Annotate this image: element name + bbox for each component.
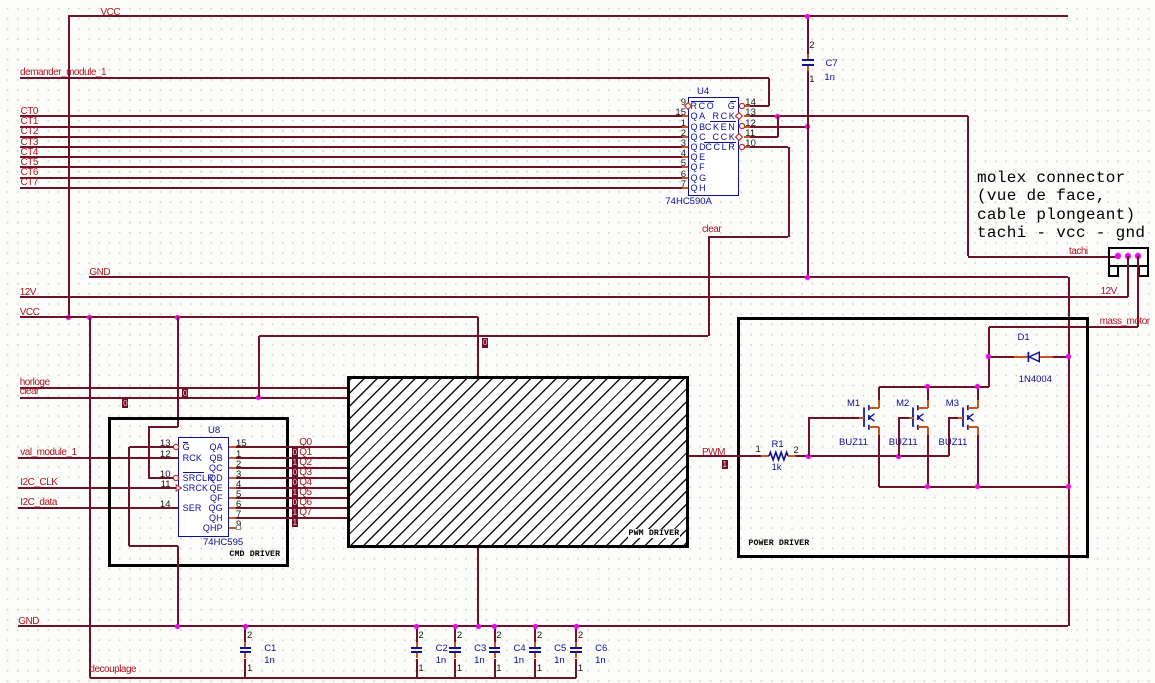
U8 pin number 9 [236,520,241,530]
U8 pin number 15 [236,439,247,449]
wire Q3 [229,477,236,479]
wire VCC loop to U8 SRCLR pin 10 [148,426,178,428]
node M2 drain [925,384,930,389]
label Q4 [299,478,311,489]
wire U4 pin10 CCLR stub [744,146,750,148]
molex connector left tab [1108,267,1118,277]
node D1 anode junction [986,354,991,359]
capacitor C2 [416,626,418,642]
wire U8 G pin 13 to GND [129,446,173,448]
label mass_motor [1100,317,1150,328]
wire Q2 [229,467,236,469]
U4 pin name RCK [713,112,737,121]
net tag on QHP row [292,518,298,528]
wire mass_motor [1137,256,1139,327]
label 12V right [1101,287,1117,298]
wire CT2 [20,136,682,138]
wire clear riser [258,336,260,397]
U8 pin number 2 [236,460,241,470]
net tag on Q0 row [292,448,298,458]
node M2 source [925,484,930,489]
capacitor C1 [244,626,246,642]
label C1 [264,644,276,654]
label clear [20,387,39,398]
label CT0 [21,107,38,118]
transistor M1 BUZ11 [862,402,884,450]
label horloge [20,378,50,389]
label I2C_CLK [20,478,57,489]
U4 pin 9 RCO clock mark [683,101,693,111]
wire CT1 [20,126,682,128]
label M3 [946,399,959,409]
label C6 value 1n [595,656,606,666]
wire Q4 [229,487,236,489]
U8 pin number 4 [236,480,241,490]
node C7 to VCC rail [805,14,810,19]
node VCC to U8 [175,315,180,320]
U4 pin number 1 [681,119,686,129]
label R1 [772,440,784,450]
wire CT7 [20,187,682,189]
net tag on Q6 row [292,508,298,518]
wire M2 gate [898,417,900,456]
pin number C2-1 [418,664,423,674]
label CT4 [21,148,38,159]
node M2 gate junction [896,454,901,459]
U8 pin name QE [210,484,223,493]
net tag on Q3 row [292,478,298,488]
capacitor C4 [494,626,496,642]
U8 pin name SRCK [183,484,209,493]
wire decouplage rail [90,677,577,679]
label C5 [554,644,566,654]
U4 pin number 4 [681,149,686,159]
U4 pin number 12 [745,119,756,129]
pin number C7-1 [809,75,814,85]
transistor M3 BUZ11 [961,402,983,450]
box POWER DRIVER [737,317,1089,558]
wire PWM gate bus [796,455,949,457]
U4 pin name QG [691,174,708,183]
wire VCC top rail [68,15,1068,17]
text molex connector note [977,169,1145,242]
label 12V left [20,288,36,299]
label clear at U4 [702,225,721,236]
wire horloge [20,387,347,389]
U4 CKEN overbar [710,121,736,122]
U8 pin number 11 [161,480,171,490]
pin number C4-2 [496,631,501,641]
wire CT4 [20,156,682,158]
net tag on clear line [122,399,128,409]
label PWM [702,448,725,459]
U4 pin number 11 [745,129,755,139]
wire I2C_CLK [18,487,176,489]
label CT7 [21,178,38,189]
pin number C4-1 [496,664,501,674]
U4 pin name QB [691,123,707,132]
U4 pin number 13 [745,108,756,118]
label M1 value BUZ11 [839,438,868,448]
net tag on horloge line [182,389,188,399]
molex pin 1 tachi [1115,253,1121,259]
wire CT3 [20,146,682,148]
label VCC top [101,8,121,19]
U8 pin name QA [210,443,223,452]
wire VCC middle rail [20,316,478,318]
U4 pin number 15 [675,108,686,118]
U8 pin 10 bubble [172,474,180,482]
label C6 [595,644,607,654]
pin number C2-2 [418,631,423,641]
net tag on Q2 row [292,468,298,478]
label decouplage [89,665,136,676]
wire I2C_data [18,507,178,509]
node C2 on GND rail [414,624,419,629]
label C2 [436,644,448,654]
diode D1 1N4004 [989,356,1014,358]
U8 pin number 5 [236,490,241,500]
U8 pin 11 clock mark [175,484,183,492]
label val_module_1 [20,448,76,459]
wire M1 gate [808,417,810,456]
U8 pin number 12 [160,450,171,460]
U4 pin 14 bubble [738,102,746,110]
node M3 source [975,484,980,489]
U4 pin name QH [691,184,708,193]
label D1 [1018,333,1030,343]
wire PWM from PWM DRIVER box [689,455,761,457]
U4 pin number 7 [681,180,686,190]
net tag on Q5 row [292,498,298,508]
U8 pin name QC [209,464,223,473]
capacitor C7 [807,16,809,54]
label CT1 [21,117,38,128]
wire tachi net from U4 RCK [744,115,750,117]
wire CT5 [20,166,682,168]
U8 pin name QG [209,504,223,513]
U8 pin name QH [209,514,223,523]
label C3 [474,644,486,654]
text PWM DRIVER [628,529,681,538]
label CT3 [21,138,38,149]
wire CT6 [20,177,682,179]
wire val_module_1 [18,457,178,459]
node CKEN-C7-GND junction [805,124,810,129]
net tag on Q4 row [292,488,298,498]
pin number C5-1 [537,664,542,674]
label U4 [697,87,709,97]
pin number C6-1 [578,664,583,674]
U8 pin 13 bubble [172,443,180,451]
node D1 cathode junction [1066,354,1071,359]
U8 SRCLR overbar [183,472,205,473]
U4 pin name QD [691,143,708,152]
wire Q6 [229,507,236,509]
resistor R1 [761,455,769,457]
node U8 G net on GND rail [175,624,180,629]
U8 pin name QHP [203,524,223,533]
node R1 to M1 gate [806,454,811,459]
label tachi [1069,247,1088,258]
node PWM box drop on GND rail [476,624,481,629]
label M1 [847,399,860,409]
U4 pin number 9 [681,98,686,108]
wire GND middle rail [89,276,1068,278]
label Q2 [299,458,311,469]
IC U4 74HC590A body [688,97,739,197]
wire U4 pin14 G stub [744,105,750,107]
net tag on Q1 row [292,458,298,468]
text POWER DRIVER [748,539,809,548]
U4 CCLR overbar [704,142,736,143]
U4 RCO overbar [691,101,714,102]
wire VCC drop below PWM box to GND [477,548,479,626]
label U8 [208,426,220,436]
molex connector body [1108,247,1148,267]
U4 pin name QE [691,153,707,162]
label R1 value 1k [772,463,782,473]
label D1 value 1N4004 [1019,375,1052,385]
wire Q1 [229,457,236,459]
net tag on PWM line [722,460,728,470]
label 74HC595 [203,538,243,548]
U8 pin number 10 [160,470,171,480]
label GND middle [89,268,110,279]
wire GND right riser [1068,277,1070,626]
U8 pin name RCK [183,454,202,463]
label VCC middle [20,308,40,319]
node C3 on GND rail [453,624,458,629]
wire Q0 [229,446,236,448]
wire RCK to CCK link [777,116,779,136]
U4 pin name QC [691,133,708,142]
U4 pin name QA [691,112,707,121]
pin number C6-2 [578,631,583,641]
node C7 net to GND rail [805,275,810,280]
wire drain rail [879,386,989,388]
label CT2 [21,127,38,138]
pin number C7-2 [809,41,814,51]
net tag on VCC drop [482,338,488,348]
node M3 drain [975,384,980,389]
U8 pin number 1 [236,450,241,460]
pin number C1-2 [247,631,252,641]
U4 pin number 3 [681,139,686,149]
box CMD DRIVER [108,417,289,567]
label Q1 [299,448,311,459]
molex pin 3 mass_motor [1135,253,1141,259]
IC U8 74HC595 body [178,437,229,537]
node C1 on GND rail [243,624,248,629]
U8 pin number 13 [160,439,171,449]
label C1 value 1n [264,656,275,666]
label C3 value 1n [474,656,485,666]
U4 pin 12 bubble [738,122,746,130]
molex connector right tab [1138,267,1148,277]
label C5 value 1n [554,656,565,666]
wire U4 pin12 CKEN stub [744,126,750,128]
label Q0 [299,438,311,449]
label C4 value 1n [514,656,525,666]
label Q7 [299,508,311,519]
node VCC to decoupling rail [87,315,92,320]
U8 pin name G [183,443,190,452]
U4 pin name CCLR [705,143,736,152]
U4 pin 13 clock mark [734,111,744,121]
U8 pin number 14 [160,500,171,510]
U8 G overbar [183,442,188,443]
node C4 on GND rail [492,624,497,629]
U4 pin number 10 [745,139,756,149]
node C5 on GND rail [533,624,538,629]
label GND bottom [18,617,39,628]
label C2 value 1n [436,656,447,666]
U8 pin name QD [209,474,223,483]
wire GND bottom rail [18,625,1068,627]
U4 pin name G [728,102,737,111]
U8 pin name QF [210,494,223,503]
capacitor C5 [534,626,536,642]
wire Q7 [229,517,236,519]
pin number C1-1 [247,664,252,674]
U8 QHP unconnected marker [236,525,241,530]
U4 pin name CKEN [705,123,736,132]
text CMD DRIVER [229,550,280,559]
wire VCC drop into CMD DRIVER box [177,317,179,427]
label C4 [514,644,526,654]
transistor M2 BUZ11 [911,402,933,450]
label M2 [896,399,909,409]
molex pin 2 12V [1125,253,1131,259]
U4 pin number 5 [681,159,686,169]
label M2 value BUZ11 [889,438,918,448]
wire U8 QHP stub [229,527,236,529]
wire M3 gate [948,417,950,456]
U8 pin name QB [210,454,223,463]
label demander_module_1 [20,68,106,79]
node C6 on GND rail [574,624,579,629]
U4 pin name RCO [691,102,716,111]
wire U4 pin11 CCK stub [744,136,750,138]
node source rail to GND riser [1066,484,1071,489]
label CT5 [21,158,38,169]
U8 pin number 6 [236,500,241,510]
wire 12V from connector [1127,256,1129,297]
U4 pin 10 bubble [738,143,746,151]
wire clear horizontal run to U4 [259,335,709,337]
pin number C5-2 [537,631,542,641]
pin number C3-1 [457,664,462,674]
label Q5 [299,488,311,499]
node RCK-CCK junction [775,114,780,119]
label I2C_data [20,498,57,509]
U8 pin number 7 [236,510,241,520]
label 74HC590A [665,197,711,207]
U4 G overbar [730,101,736,102]
pin number C3-2 [457,631,462,641]
U8 pin name SER [183,504,202,513]
pin number R1-1 [756,445,761,455]
node clear junction [256,395,261,400]
U4 pin 11 clock mark [734,132,744,142]
label M3 value BUZ11 [939,438,968,448]
U4 pin name CCK [713,133,737,142]
label CT6 [21,168,38,179]
wire Q5 [229,497,236,499]
label Q3 [299,468,311,479]
wire clear [20,397,347,399]
U4 pin name QF [691,163,707,172]
capacitor C3 [454,626,456,642]
box PWM DRIVER (hatched) [347,376,689,548]
U8 pin name SRCLR [183,474,214,483]
wire CT0 [20,115,682,117]
wire demander_module_1 [20,77,769,79]
U4 pin number 6 [681,170,686,180]
U4 pin number 14 [745,98,756,108]
capacitor C6 [575,626,577,642]
wire VCC drop to decouplage rail [89,317,91,678]
node VCC junction at VCC rail [66,315,71,320]
label C7 [826,59,838,69]
U4 pin number 2 [681,129,686,139]
wire source rail [879,486,1069,488]
wire 12V rail [20,296,1128,298]
U8 pin number 3 [236,470,241,480]
label Q6 [299,498,311,509]
pin number R1-2 [794,446,799,456]
